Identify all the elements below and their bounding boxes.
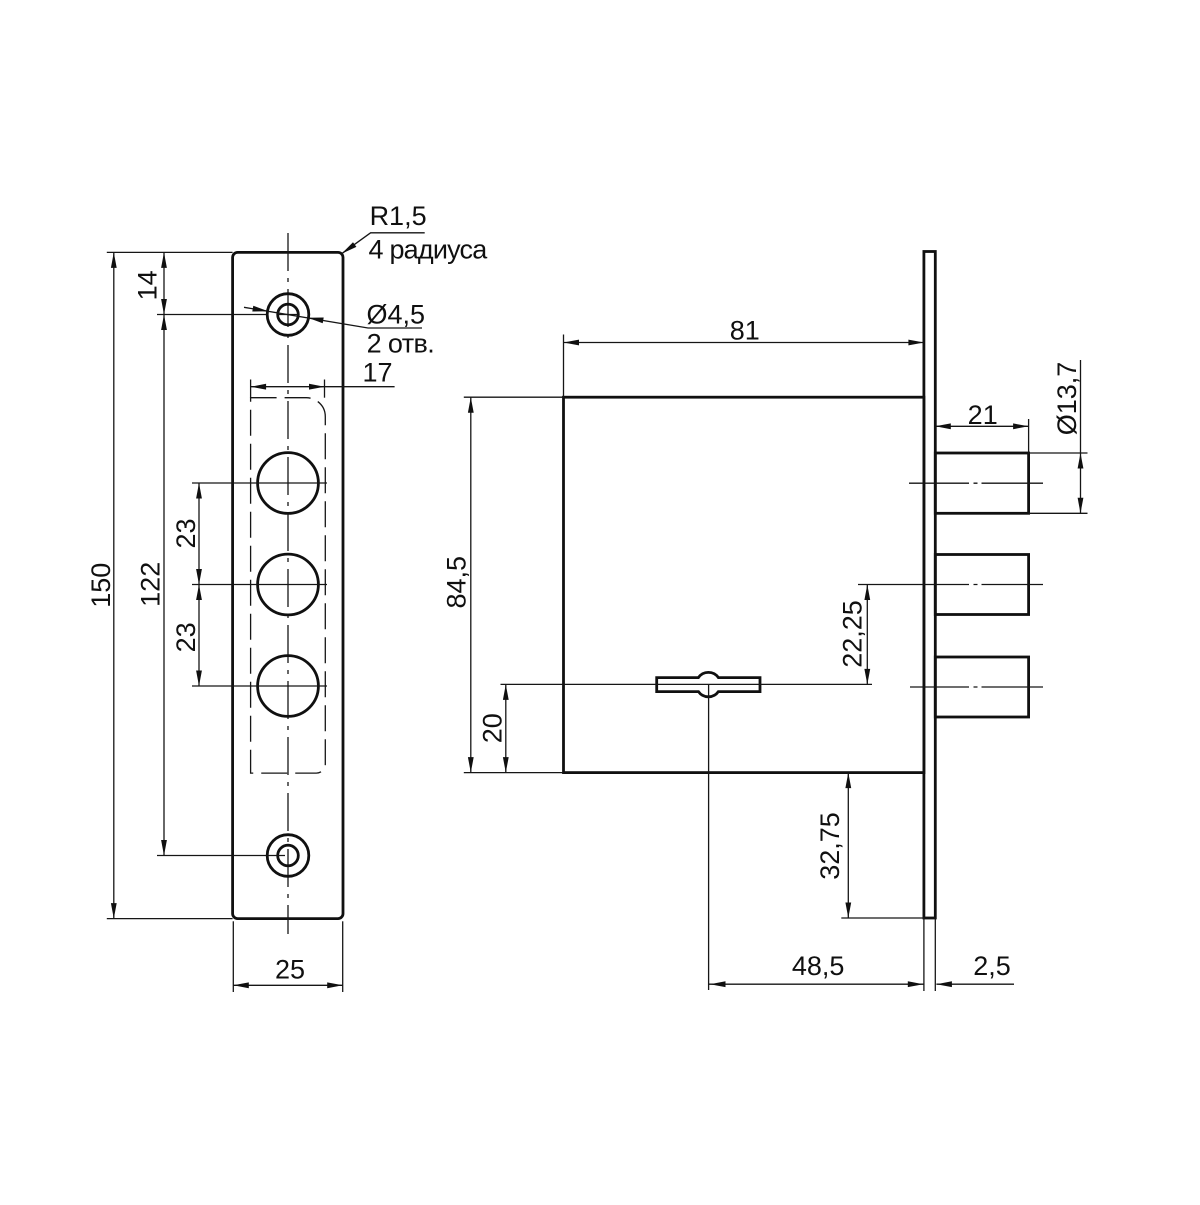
svg-text:32,75: 32,75 bbox=[815, 812, 845, 880]
bolt 3 centerline bbox=[910, 686, 1043, 688]
svg-text:122: 122 bbox=[136, 562, 166, 607]
top screw hole outer bbox=[267, 294, 309, 336]
dimension 84,5 bbox=[442, 397, 564, 772]
svg-text:150: 150 bbox=[86, 563, 116, 608]
extension line circle 3 bbox=[192, 685, 327, 687]
lock body bbox=[564, 397, 924, 772]
svg-text:Ø13,7: Ø13,7 bbox=[1052, 362, 1082, 436]
dimension 14 bbox=[133, 252, 167, 855]
svg-text:23: 23 bbox=[171, 622, 201, 652]
svg-text:2,5: 2,5 bbox=[973, 951, 1011, 981]
dimension 81 bbox=[564, 316, 924, 398]
svg-text:Ø4,5: Ø4,5 bbox=[367, 300, 426, 330]
dimension 48,5 bbox=[709, 951, 924, 987]
bolt 1 bbox=[935, 453, 1028, 513]
dimension diameter 13,7 bbox=[1029, 360, 1088, 513]
dimension 20 bbox=[478, 684, 509, 772]
svg-text:23: 23 bbox=[171, 518, 201, 548]
svg-text:20: 20 bbox=[478, 713, 508, 743]
dimension 32,75 bbox=[815, 773, 924, 918]
key lever shape bbox=[657, 672, 760, 696]
dimension 25 bbox=[233, 921, 342, 992]
dimension 21 bbox=[935, 400, 1028, 453]
extension line top screw hole bbox=[157, 314, 266, 316]
key horizontal axis line bbox=[501, 683, 873, 685]
pocket hidden outline (dashed) bbox=[251, 398, 326, 773]
svg-text:84,5: 84,5 bbox=[442, 556, 472, 609]
faceplate edge strip bbox=[924, 252, 935, 919]
dimension 150 bbox=[86, 252, 233, 918]
bolt 3 bbox=[935, 657, 1028, 717]
bolt hole circle 3 bbox=[258, 656, 319, 717]
leader diameter 4,5 / 2 holes bbox=[244, 300, 434, 359]
bolt 2 bbox=[935, 555, 1028, 615]
svg-text:R1,5: R1,5 bbox=[370, 201, 427, 231]
svg-text:22,25: 22,25 bbox=[838, 600, 868, 668]
svg-text:21: 21 bbox=[968, 400, 998, 430]
dimension 22,25 bbox=[838, 585, 871, 685]
bottom screw hole inner bbox=[278, 845, 299, 866]
svg-text:25: 25 bbox=[275, 954, 305, 984]
bolt 2 centerline bbox=[858, 584, 1043, 586]
extension line circle 2 bbox=[192, 584, 327, 586]
vertical centerline of faceplate bbox=[287, 233, 289, 934]
strip extension lines below bbox=[923, 918, 925, 991]
leader R1,5 bbox=[342, 201, 489, 264]
dimension 23 upper bbox=[171, 483, 202, 686]
bolt hole circle 2 bbox=[258, 554, 319, 615]
bolt 1 centerline bbox=[909, 482, 1043, 484]
extension line circle 1 bbox=[192, 482, 327, 484]
svg-text:4 радиуса: 4 радиуса bbox=[369, 235, 489, 265]
svg-text:81: 81 bbox=[730, 316, 760, 346]
svg-text:14: 14 bbox=[133, 270, 163, 300]
bottom screw hole outer bbox=[267, 835, 309, 877]
dimension 122 bbox=[136, 315, 167, 856]
top screw hole inner bbox=[278, 304, 299, 325]
dimension 17 bbox=[251, 358, 395, 398]
extension line bottom screw hole bbox=[157, 855, 285, 857]
bolt hole circle 1 bbox=[258, 453, 319, 514]
dimension 23 lower bbox=[171, 585, 202, 687]
svg-text:48,5: 48,5 bbox=[792, 951, 845, 981]
dimension 2,5 bbox=[936, 951, 1014, 987]
svg-text:2 отв.: 2 отв. bbox=[367, 329, 435, 359]
faceplate outline bbox=[233, 252, 343, 918]
key vertical line down bbox=[708, 684, 710, 990]
svg-text:17: 17 bbox=[362, 358, 392, 388]
